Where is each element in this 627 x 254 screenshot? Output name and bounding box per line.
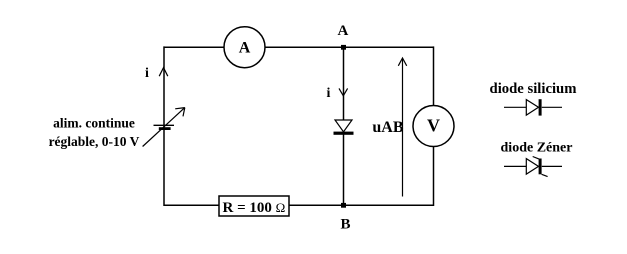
wire right branch lower (voltmeter to bottom) xyxy=(433,146,435,206)
wire middle branch lower (diode to node B) xyxy=(343,134,345,205)
svg-text:V: V xyxy=(427,116,440,136)
node A junction dot xyxy=(341,45,346,50)
voltage arrow uAB head xyxy=(398,58,406,66)
wire top-left: from left branch to ammeter xyxy=(164,46,224,48)
wire bottom-left: to resistor xyxy=(164,204,219,206)
variable DC source E1: variability arrow xyxy=(143,108,185,147)
wire middle branch upper (node A to diode) xyxy=(343,47,345,120)
svg-text:diode silicium: diode silicium xyxy=(490,81,577,97)
svg-text:diode Zéner: diode Zéner xyxy=(501,141,573,156)
ammeter U1 circle xyxy=(224,27,265,68)
legend: diode silicium symbol xyxy=(504,100,562,116)
legend: diode Zéner symbol xyxy=(504,157,562,177)
wire top-right: ammeter to node A to right branch xyxy=(265,46,434,48)
diode D1 cathode bar xyxy=(334,132,354,135)
svg-text:A: A xyxy=(239,40,251,57)
wire right branch upper (to voltmeter) xyxy=(433,46,435,106)
variable DC source E1: short thick plate xyxy=(159,127,171,130)
svg-text:R = 100 Ω: R = 100 Ω xyxy=(223,200,286,216)
voltage arrow uAB line xyxy=(402,59,404,197)
voltmeter U2 circle xyxy=(413,106,454,147)
resistor R box xyxy=(219,196,289,216)
svg-text:réglable, 0-10 V: réglable, 0-10 V xyxy=(49,134,140,149)
diode D1 triangle xyxy=(335,120,352,132)
wire bottom-right: resistor to right branch xyxy=(289,204,434,206)
current arrow i (middle branch, down) xyxy=(339,88,348,95)
svg-text:i: i xyxy=(145,66,149,81)
variable DC source E1: long thin plate xyxy=(154,124,175,126)
node B junction dot xyxy=(341,203,346,208)
svg-text:B: B xyxy=(341,217,351,233)
svg-text:A: A xyxy=(338,23,349,39)
svg-text:uAB: uAB xyxy=(372,119,403,136)
svg-text:alim. continue: alim. continue xyxy=(53,116,135,131)
svg-text:i: i xyxy=(327,86,331,101)
wire left vertical branch xyxy=(163,46,165,206)
current arrow i (left branch, up) xyxy=(159,68,168,77)
